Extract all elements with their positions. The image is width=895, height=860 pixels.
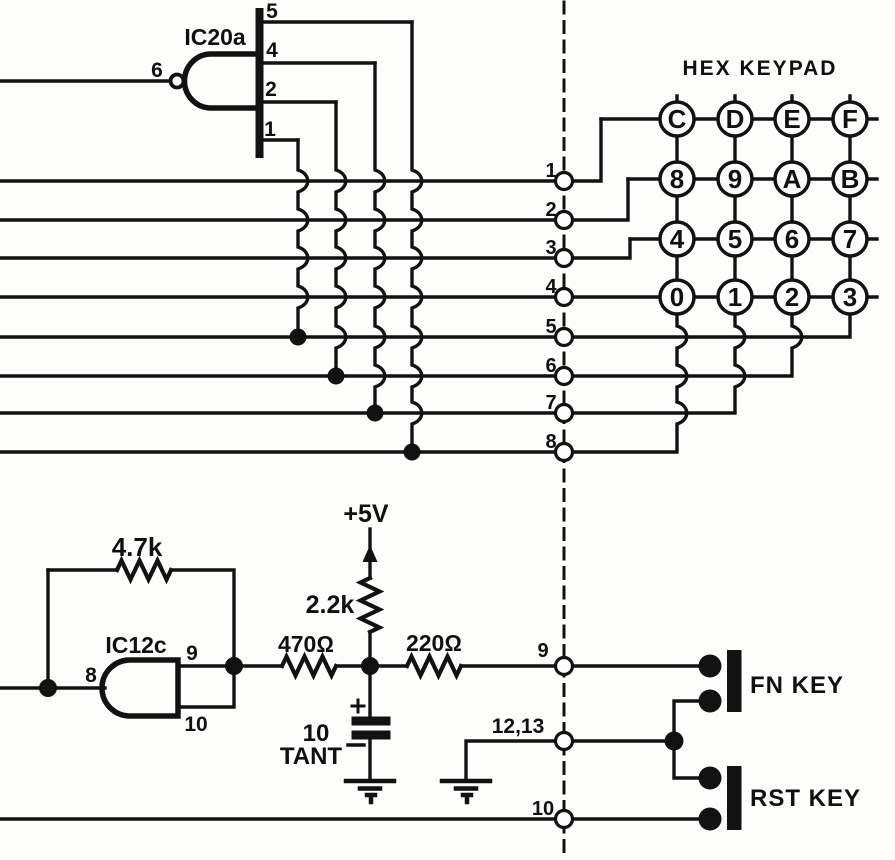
junction dot pin5 line to row 8 bbox=[404, 444, 421, 461]
svg-text:6: 6 bbox=[545, 355, 556, 377]
junction node pin 9 / feedback bbox=[225, 657, 243, 675]
wire vertical from pin 1 with hops over rows 1-4 bbox=[298, 140, 308, 337]
wire keypad column E-A-2 with descender hopping row 5 to row 6 bbox=[572, 96, 802, 376]
keypad key 4 bbox=[660, 222, 694, 256]
svg-text:470Ω: 470Ω bbox=[278, 631, 334, 657]
keypad key E bbox=[775, 102, 809, 136]
wire IC20a pin 4 stub bbox=[263, 61, 375, 64]
connector pin circle 9 bbox=[556, 658, 573, 675]
svg-text:D: D bbox=[726, 104, 745, 134]
wire connector pin 3 to keypad row 4 bbox=[572, 239, 630, 258]
svg-text:F: F bbox=[842, 104, 858, 134]
svg-text:7: 7 bbox=[843, 224, 857, 254]
wire keypad row 8 horizontal bbox=[628, 177, 877, 180]
capacitor minus mark after TANT bbox=[348, 743, 364, 747]
wire keypad column C-8-4-0 with descender hopping rows 5,6,7 to row 8 bbox=[572, 96, 687, 452]
capacitor C 10 TANT plus sign bbox=[352, 700, 364, 712]
wire 2.2k to node bbox=[368, 632, 371, 666]
junction dot pin1 line to row 5 bbox=[290, 329, 307, 346]
wire bus row 8 bbox=[0, 450, 556, 453]
wire +5V lead bbox=[368, 529, 371, 578]
svg-text:FN KEY: FN KEY bbox=[750, 672, 844, 699]
resistor R 2.2k vertical bbox=[361, 578, 380, 632]
connector pin circle 12,13 bbox=[556, 733, 573, 750]
ground symbol on 12,13 line bbox=[442, 781, 490, 802]
svg-text:4.7k: 4.7k bbox=[112, 532, 163, 562]
resistor R 220 ohm bbox=[407, 657, 461, 676]
wire bus row 6 bbox=[0, 374, 556, 377]
IC20a output bubble pin 6 bbox=[171, 75, 184, 88]
svg-text:HEX KEYPAD: HEX KEYPAD bbox=[683, 57, 838, 80]
svg-text:10: 10 bbox=[532, 798, 554, 820]
connector pin circle 1 bbox=[556, 173, 573, 190]
svg-text:5: 5 bbox=[728, 224, 742, 254]
svg-text:IC20a: IC20a bbox=[184, 24, 246, 50]
svg-text:9: 9 bbox=[186, 642, 198, 665]
svg-text:12,13: 12,13 bbox=[492, 715, 545, 738]
wire keypad row 4 horizontal bbox=[630, 237, 877, 240]
junction node feedback tap on output wire bbox=[39, 679, 57, 697]
resistor R 4.7k bbox=[117, 561, 171, 580]
wire bus row 7 bbox=[0, 411, 556, 414]
svg-text:4: 4 bbox=[545, 276, 557, 298]
svg-text:4: 4 bbox=[266, 39, 278, 62]
wire feedback loop top right segment and right riser bbox=[171, 570, 234, 666]
wire connector pin 9 to FN KEY top contact bbox=[572, 664, 709, 667]
svg-text:8: 8 bbox=[670, 164, 684, 194]
IC20a input bar bbox=[256, 12, 264, 154]
wire feedback loop left riser bbox=[46, 570, 49, 688]
svg-text:6: 6 bbox=[785, 224, 799, 254]
wire junction down to RST KEY top contact bbox=[674, 741, 709, 778]
wire IC12c output pin 8 to left edge bbox=[0, 686, 105, 689]
wire feedback loop top left segment bbox=[48, 568, 117, 571]
junction dot pin4 line to row 7 bbox=[367, 405, 384, 422]
svg-text:5: 5 bbox=[545, 316, 556, 338]
wire bus row 10 to left edge bbox=[0, 817, 556, 820]
keypad key B bbox=[833, 162, 867, 196]
svg-text:7: 7 bbox=[545, 392, 556, 414]
op-amp IC20a gate body (4-input NAND, mirrored) bbox=[185, 54, 260, 108]
junction node pullup/cap tap bbox=[361, 657, 379, 675]
svg-text:220Ω: 220Ω bbox=[406, 630, 462, 656]
wire vertical from pin 2 with hops over rows 1-5 bbox=[336, 102, 346, 376]
wire bus row 5 bbox=[0, 335, 556, 338]
keypad key D bbox=[718, 102, 752, 136]
capacitor C 10 TANT top plate bbox=[356, 717, 386, 726]
wire connector pin 4 to keypad row 0 bbox=[572, 295, 877, 298]
svg-text:8: 8 bbox=[85, 664, 97, 687]
connector pin circle 10 bbox=[556, 811, 573, 828]
connector pin circle 4 bbox=[556, 289, 573, 306]
keypad key 5 bbox=[718, 222, 752, 256]
svg-text:0: 0 bbox=[670, 282, 684, 312]
wire ground to connector pins 12,13 bbox=[466, 741, 556, 780]
keypad key 3 bbox=[833, 280, 867, 314]
svg-text:1: 1 bbox=[545, 160, 556, 182]
junction dot pin2 line to row 6 bbox=[328, 368, 345, 385]
keypad key 9 bbox=[718, 162, 752, 196]
svg-text:2: 2 bbox=[265, 78, 277, 101]
wire node down to capacitor bbox=[368, 666, 371, 717]
wire FN KEY bottom contact to junction bbox=[674, 701, 709, 741]
wire bus row 2 bbox=[0, 218, 556, 221]
svg-text:C: C bbox=[668, 104, 687, 134]
switch RST KEY contact top bbox=[699, 767, 722, 790]
keypad key 7 bbox=[833, 222, 867, 256]
wire vertical from pin 4 with hops over rows 1-6 bbox=[375, 63, 385, 413]
capacitor C 10 TANT bottom plate bbox=[356, 731, 386, 740]
switch RST KEY cap bar bbox=[727, 766, 742, 830]
svg-text:1: 1 bbox=[264, 118, 276, 141]
wire keypad row C horizontal bbox=[601, 117, 877, 120]
connector pin circle 7 bbox=[556, 405, 573, 422]
svg-text:+5V: +5V bbox=[343, 500, 389, 528]
svg-text:3: 3 bbox=[545, 237, 556, 259]
svg-text:1: 1 bbox=[728, 282, 742, 312]
svg-text:9: 9 bbox=[728, 164, 742, 194]
keypad key A bbox=[775, 162, 809, 196]
wire keypad column D-9-1 with descender hopping rows 5,6 to row 7 bbox=[572, 96, 745, 413]
svg-text:9: 9 bbox=[537, 640, 548, 662]
wire connector pin 2 to keypad row 8 bbox=[572, 179, 628, 220]
wire bus row 1 bbox=[0, 179, 556, 182]
ground symbol below capacitor bbox=[346, 781, 394, 802]
keypad key 8 bbox=[660, 162, 694, 196]
keypad key 2 bbox=[775, 280, 809, 314]
svg-text:2: 2 bbox=[545, 199, 556, 221]
wire IC20a pin 2 stub bbox=[263, 100, 336, 103]
svg-text:2.2k: 2.2k bbox=[306, 591, 355, 619]
svg-text:3: 3 bbox=[843, 282, 857, 312]
switch FN KEY contact bottom bbox=[699, 690, 722, 713]
wire IC20a output pin 6 to left edge bbox=[0, 79, 170, 82]
wire keypad column F-B-7-3 descender to row 5 bbox=[572, 96, 850, 337]
connector pin circle 2 bbox=[556, 212, 573, 229]
switch FN KEY cap bar bbox=[727, 650, 742, 712]
keypad key C bbox=[660, 102, 694, 136]
wire connector pin 1 to keypad row C bbox=[572, 119, 601, 181]
keypad key F bbox=[833, 102, 867, 136]
connector pin circle 8 bbox=[556, 444, 573, 461]
wire bus row 4 bbox=[0, 295, 556, 298]
wire capacitor to ground bbox=[368, 740, 371, 780]
wire bus row 3 bbox=[0, 256, 556, 259]
wire IC12c pin 9 input to 470 ohm bbox=[178, 664, 282, 667]
keypad key 1 bbox=[718, 280, 752, 314]
svg-text:4: 4 bbox=[670, 224, 685, 254]
wire 12,13 to junction bbox=[572, 739, 674, 742]
op-amp IC12c gate body (AND, mirrored) bbox=[102, 660, 178, 716]
svg-text:E: E bbox=[783, 104, 800, 134]
wire connector pin 10 to RST KEY bottom contact bbox=[572, 817, 709, 820]
switch RST KEY contact bottom bbox=[699, 808, 722, 831]
svg-text:2: 2 bbox=[785, 282, 799, 312]
svg-text:TANT: TANT bbox=[280, 743, 343, 770]
switch FN KEY contact top bbox=[699, 655, 722, 678]
svg-text:6: 6 bbox=[151, 59, 163, 82]
wire IC12c pin 10 input loop bbox=[178, 666, 234, 707]
connector boundary dashed line bbox=[563, 2, 566, 856]
wire 470 ohm to 220 ohm through node bbox=[336, 664, 407, 667]
svg-text:8: 8 bbox=[545, 431, 556, 453]
keypad key 6 bbox=[775, 222, 809, 256]
junction node key common bbox=[665, 732, 684, 751]
connector pin circle 5 bbox=[556, 329, 573, 346]
wire IC20a pin 5 stub bbox=[263, 20, 412, 23]
wire IC20a pin 1 stub with step bbox=[263, 138, 298, 141]
wire 220 ohm to connector pin 9 bbox=[461, 664, 556, 667]
keypad key 0 bbox=[660, 280, 694, 314]
+5V arrowhead bbox=[363, 545, 378, 562]
svg-text:B: B bbox=[841, 164, 860, 194]
connector pin circle 3 bbox=[556, 250, 573, 267]
resistor R 470 ohm bbox=[282, 657, 336, 676]
svg-text:5: 5 bbox=[266, 0, 278, 23]
connector pin circle 6 bbox=[556, 368, 573, 385]
svg-text:RST KEY: RST KEY bbox=[750, 785, 861, 812]
svg-text:A: A bbox=[783, 164, 802, 194]
svg-text:10: 10 bbox=[184, 713, 207, 736]
wire vertical from pin 5 with hops over rows 1-7 bbox=[412, 22, 422, 452]
svg-text:IC12c: IC12c bbox=[105, 632, 167, 658]
